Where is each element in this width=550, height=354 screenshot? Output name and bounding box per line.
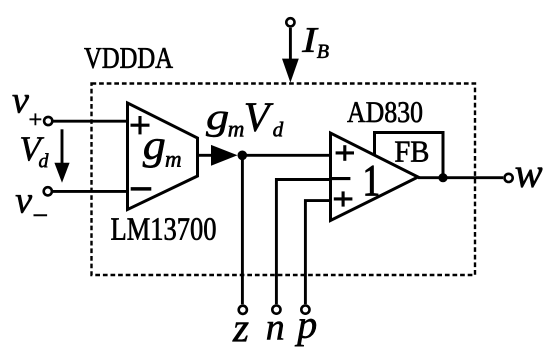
- label AD830: [347, 102, 422, 122]
- label v+: [13, 95, 29, 113]
- terminal w: [505, 174, 513, 182]
- label gmVd g: [206, 112, 228, 137]
- terminal z: [239, 306, 247, 314]
- plus sign AD830 bottom input: [334, 197, 353, 200]
- label IB subscript B: [317, 45, 329, 58]
- feedback box FB: [375, 133, 444, 177]
- arrowhead current direction gmVd: [211, 145, 238, 166]
- op-amp U1 OTA trapezoid LM13700: [128, 103, 198, 210]
- plus sign AD830 top input: [336, 151, 354, 154]
- minus sign AD830 middle input: [332, 177, 351, 180]
- dashed enclosure box VDDDA: [92, 84, 476, 276]
- label v-: [16, 195, 32, 213]
- label n: [267, 322, 283, 340]
- minus sign OTA inverting input: [131, 187, 152, 191]
- label gmVd V: [246, 103, 274, 131]
- wire n: [276, 180, 330, 305]
- arrow Vd wire (downward): [61, 129, 64, 166]
- junction dot output node: [438, 173, 447, 182]
- label gm inside OTA: [143, 139, 165, 168]
- label FB: [395, 142, 428, 162]
- op-amp U2 AD830 triangle: [331, 133, 419, 221]
- terminal IB: [286, 18, 294, 26]
- label gm inside OTA subscript m: [166, 156, 181, 167]
- label gmVd subscript m: [229, 126, 244, 137]
- wire v- to OTA: [53, 190, 127, 193]
- label VDDDA: [84, 48, 173, 68]
- wire z vertical: [241, 155, 244, 304]
- arrow Vd head: [54, 163, 69, 183]
- wire p: [305, 201, 330, 305]
- label v- subscript minus: [34, 215, 47, 216]
- arrowhead IB (downward into box): [282, 59, 299, 83]
- label z: [233, 323, 249, 342]
- wire node to AD830 + input: [242, 154, 330, 157]
- terminal n: [272, 306, 280, 314]
- label p: [295, 319, 316, 346]
- wire OTA output stub: [198, 154, 213, 157]
- label Vd: [21, 137, 44, 160]
- label gmVd subscript d: [273, 122, 283, 137]
- terminal v-: [44, 187, 52, 195]
- label w: [516, 168, 543, 188]
- node z junction dot: [238, 151, 248, 161]
- plus sign OTA noninverting input: [131, 124, 150, 127]
- wire AD830 output to w: [418, 176, 503, 179]
- terminal v+: [44, 117, 52, 125]
- wire v+ to OTA: [53, 120, 127, 123]
- terminal p: [301, 306, 309, 314]
- label IB: [302, 28, 318, 52]
- label 1 gain: [366, 166, 378, 195]
- label LM13700: [111, 218, 215, 240]
- label v+ subscript plus: [30, 114, 41, 125]
- wire IB vertical: [289, 28, 292, 62]
- label Vd subscript d: [39, 153, 48, 167]
